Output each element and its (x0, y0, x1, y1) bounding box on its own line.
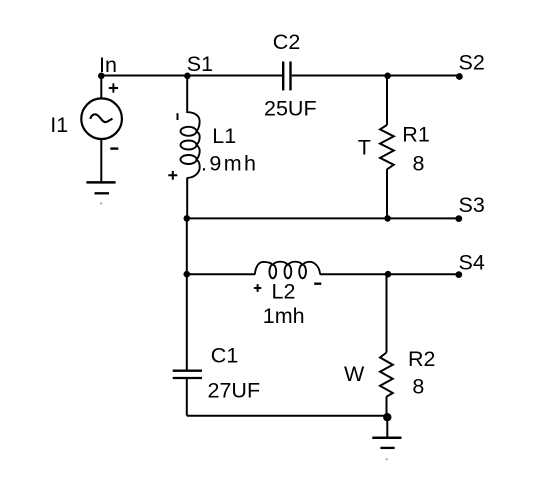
node S3 rail at R1 (384, 215, 391, 222)
svg-text:I1: I1 (50, 113, 68, 137)
node R1 top junction (384, 73, 391, 80)
L1 top polarity tick (177, 113, 179, 120)
wire L2 row to S4 (388, 273, 459, 275)
wire S1 down to L1 (186, 76, 188, 114)
svg-text:R1: R1 (402, 123, 429, 147)
resistor R2 zigzag (380, 353, 393, 397)
wire I1 to ground (100, 139, 102, 182)
svg-text:S1: S1 (187, 52, 213, 76)
terminal S2 (456, 73, 463, 80)
svg-text:S2: S2 (459, 51, 485, 75)
wire C2 to R1 junction to S2 (top rail right) (292, 75, 460, 77)
wire R1 to S3 rail (386, 169, 388, 218)
wire L2 row right segment (320, 273, 388, 275)
capacitor C1 top plate (173, 370, 202, 372)
resistor R1 zigzag (380, 125, 394, 169)
wire junction down to R1 (386, 76, 388, 126)
current source I1 circle (81, 98, 122, 139)
L2 plus polarity mark (254, 284, 261, 292)
svg-text:R2: R2 (408, 347, 435, 371)
svg-text:8: 8 (412, 374, 424, 398)
inductor L1 coil (181, 112, 200, 178)
I1 plus polarity mark (109, 83, 118, 92)
ground (output) (372, 437, 401, 440)
node ground junction (383, 413, 391, 421)
node L2 row at R2 (385, 271, 392, 278)
wire S3 rail (187, 217, 459, 219)
svg-text:C2: C2 (273, 30, 300, 54)
capacitor C1 bottom plate (173, 377, 202, 379)
I1 minus polarity mark (110, 147, 118, 149)
wire C1 down to bottom rail (186, 378, 188, 416)
svg-text:W: W (344, 362, 365, 386)
wire L2 node down to R2 (386, 274, 388, 352)
svg-text:25UF: 25UF (264, 97, 317, 121)
node L2 row left (184, 271, 191, 278)
svg-text:T: T (358, 135, 371, 159)
ground (I1) (86, 181, 115, 184)
svg-text:L2: L2 (272, 280, 296, 304)
svg-text:L1: L1 (212, 124, 236, 148)
wire L2 row left segment (187, 273, 255, 275)
svg-text:C1: C1 (211, 344, 238, 368)
svg-text:In: In (99, 53, 117, 77)
svg-text:S3: S3 (459, 193, 485, 217)
inductor L2 coil (255, 262, 320, 279)
svg-text:.9mh: .9mh (201, 152, 258, 176)
svg-text:27UF: 27UF (208, 379, 261, 403)
capacitor C2 right plate (289, 62, 291, 91)
wire R2 to ground node (386, 397, 388, 416)
svg-text:1mh: 1mh (263, 304, 305, 328)
current source I1 sine wave (90, 114, 112, 122)
wire left rail L2 row down to C1 (186, 274, 188, 370)
wire left rail S3 to L2 row (186, 218, 188, 274)
svg-text:8: 8 (413, 151, 425, 175)
svg-text:S4: S4 (459, 251, 485, 275)
terminal S4 (455, 271, 462, 278)
L1 plus polarity mark (168, 171, 177, 180)
wire ground stub (386, 417, 388, 437)
wire In to S1 to C2 (top rail left) (101, 75, 282, 77)
node S1 (184, 73, 191, 80)
capacitor C2 left plate (282, 62, 284, 91)
terminal S3 (455, 215, 462, 222)
L2 minus polarity mark (314, 283, 321, 285)
wire In node down to I1 (100, 76, 102, 99)
node In (98, 73, 105, 80)
node S3 rail left (184, 215, 191, 222)
wire L1 to S3 rail (186, 178, 188, 219)
wire bottom rail (187, 415, 388, 417)
